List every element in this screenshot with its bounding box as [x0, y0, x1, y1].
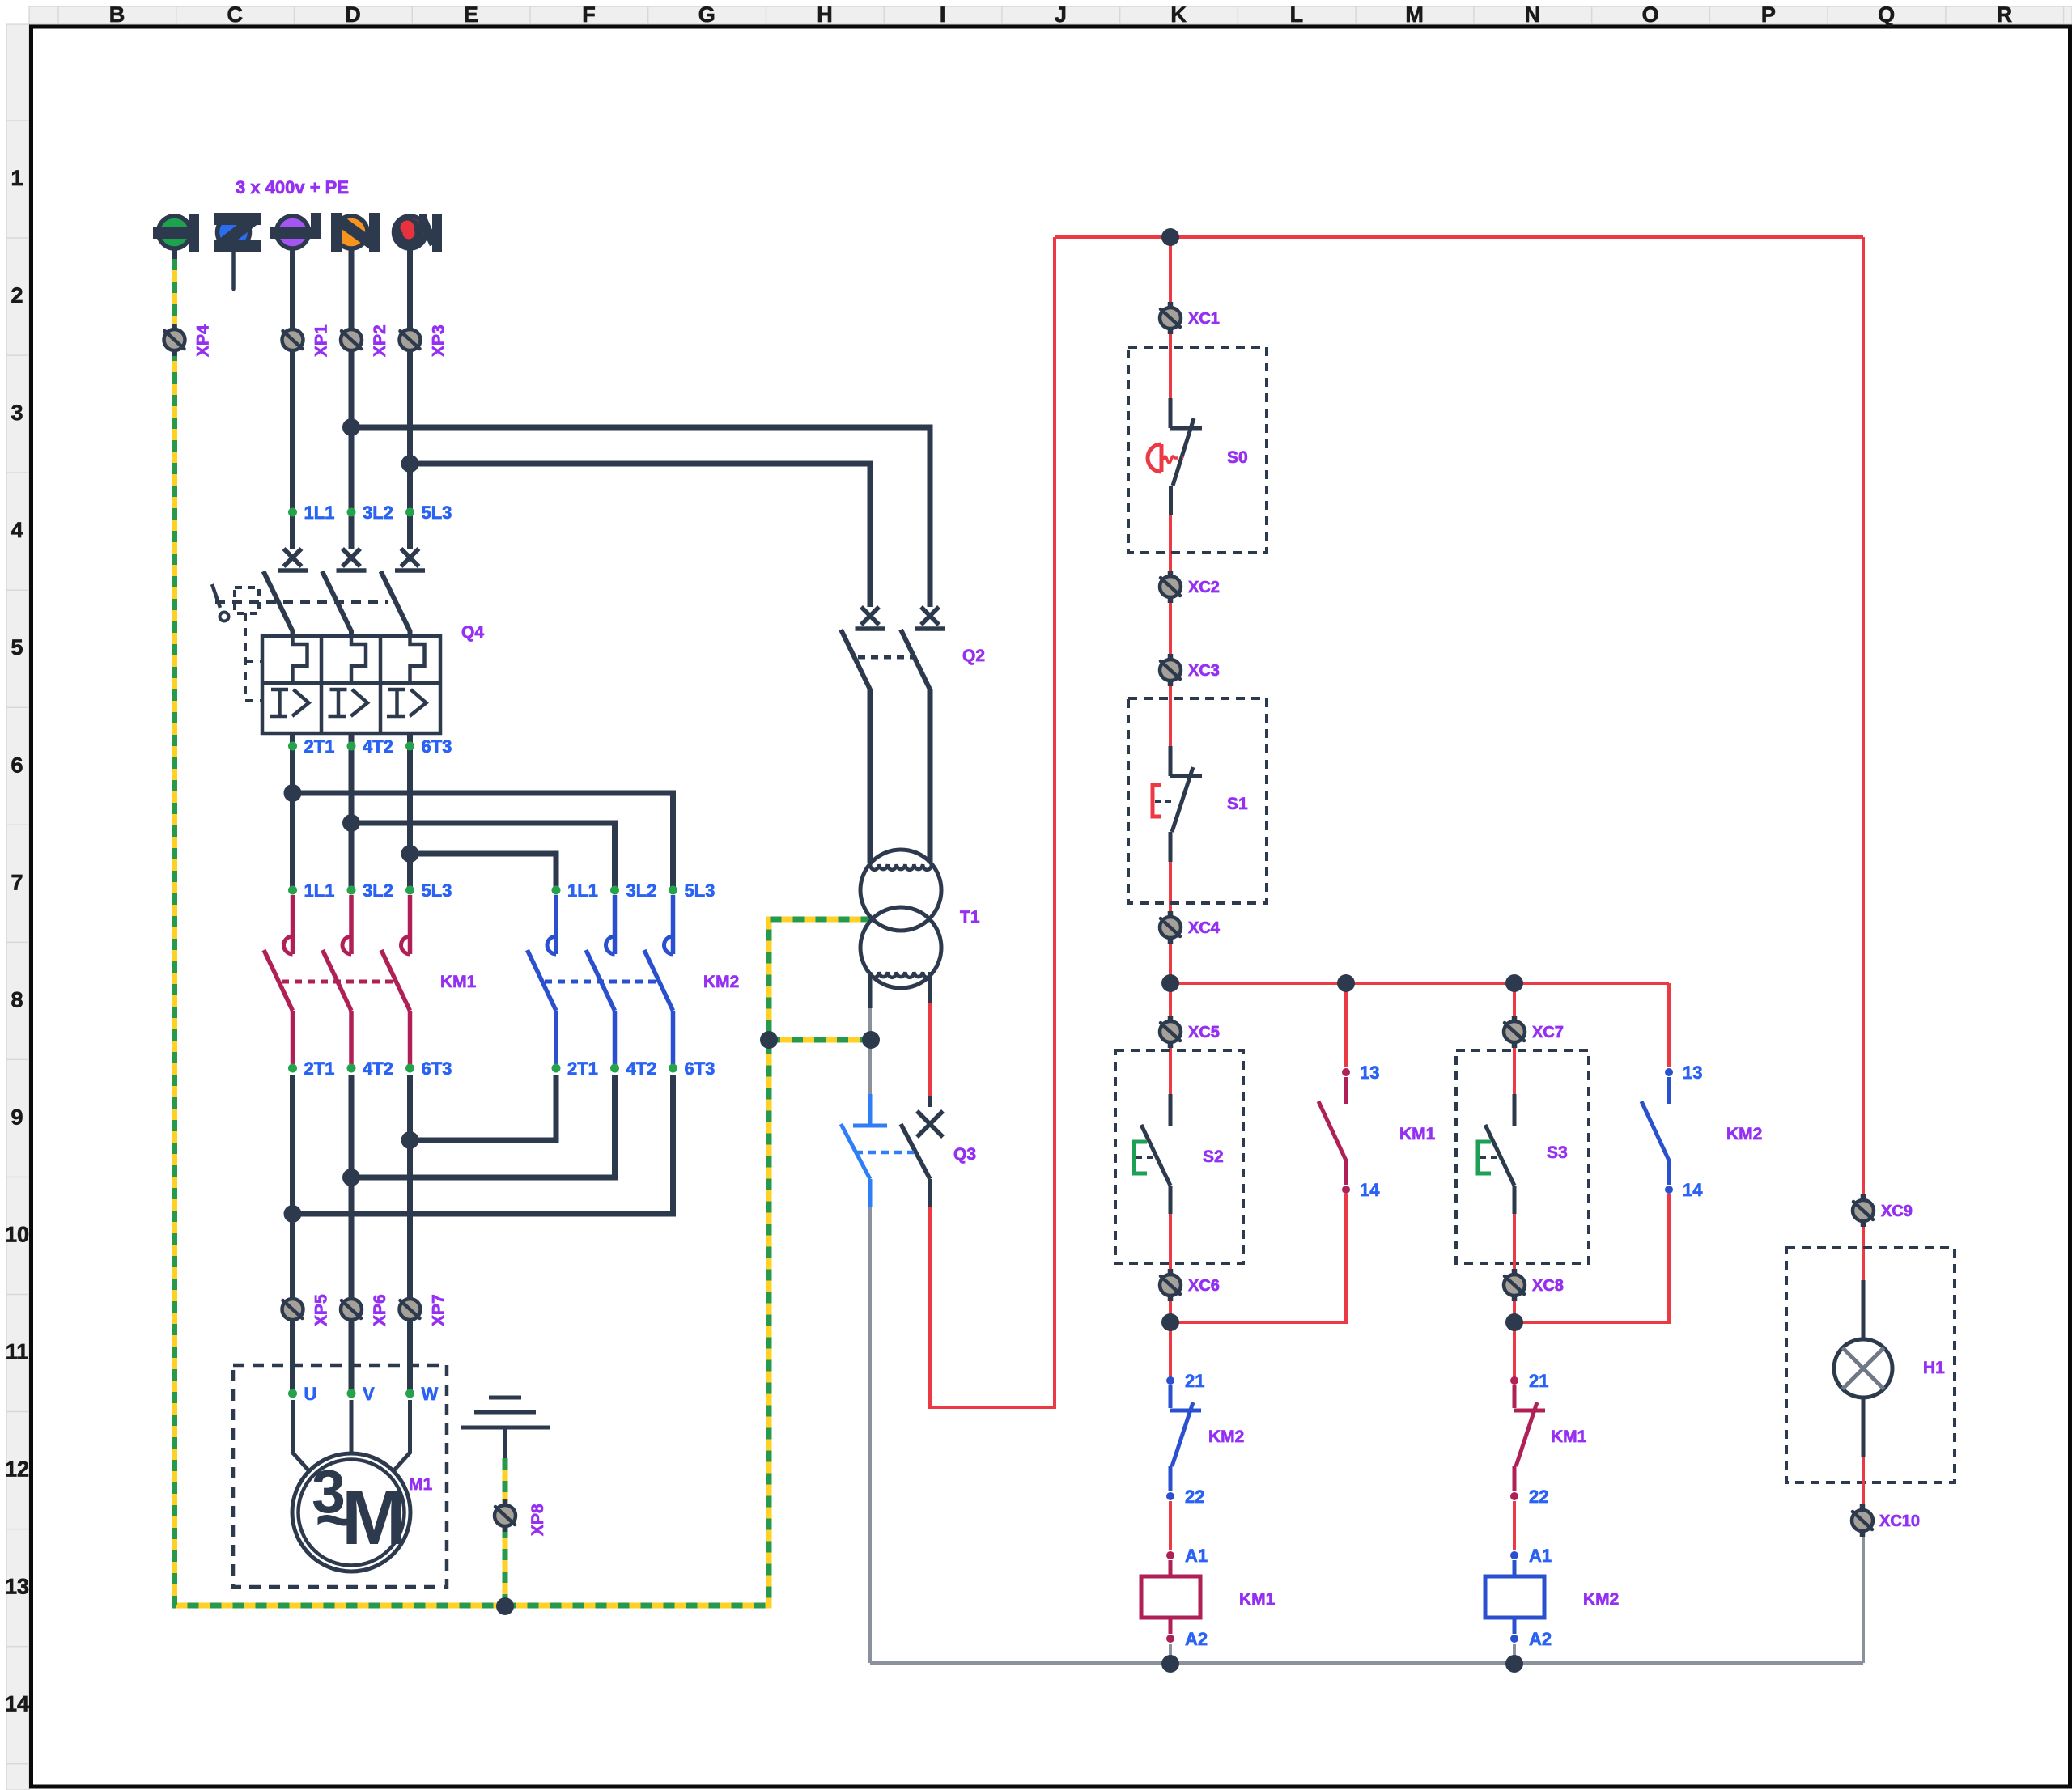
svg-text:XP8: XP8: [529, 1504, 547, 1536]
svg-text:XC6: XC6: [1188, 1277, 1220, 1295]
svg-text:N: N: [1525, 2, 1541, 27]
svg-text:14: 14: [1683, 1180, 1703, 1200]
svg-text:M1: M1: [409, 1475, 432, 1494]
svg-text:U: U: [304, 1384, 317, 1404]
svg-text:11: 11: [6, 1340, 29, 1364]
svg-text:1: 1: [11, 166, 23, 190]
svg-text:5L3: 5L3: [685, 880, 715, 901]
svg-text:6T3: 6T3: [422, 736, 452, 757]
svg-text:H1: H1: [1923, 1359, 1945, 1377]
svg-text:2: 2: [11, 283, 23, 308]
svg-text:P: P: [1761, 2, 1776, 27]
svg-text:KM1: KM1: [1239, 1590, 1276, 1609]
svg-text:Q: Q: [1878, 2, 1895, 27]
svg-text:1L1: 1L1: [304, 503, 335, 523]
svg-text:3L2: 3L2: [363, 880, 393, 901]
svg-text:O: O: [1642, 2, 1659, 27]
svg-text:E: E: [464, 2, 478, 27]
svg-text:S2: S2: [1203, 1147, 1224, 1166]
svg-text:H: H: [817, 2, 833, 27]
svg-text:R: R: [1997, 2, 2013, 27]
svg-text:KM1: KM1: [1399, 1125, 1436, 1143]
svg-text:G: G: [698, 2, 715, 27]
svg-text:14: 14: [1360, 1180, 1380, 1200]
svg-text:XP5: XP5: [312, 1294, 331, 1326]
svg-text:13: 13: [1360, 1063, 1379, 1083]
svg-text:Q3: Q3: [953, 1145, 976, 1164]
svg-text:A2: A2: [1185, 1629, 1208, 1649]
svg-text:6T3: 6T3: [685, 1058, 715, 1079]
svg-text:V: V: [363, 1384, 375, 1404]
svg-text:XP3: XP3: [430, 324, 448, 357]
svg-text:3 x 400v + PE: 3 x 400v + PE: [236, 177, 349, 197]
svg-text:2T1: 2T1: [304, 736, 335, 757]
svg-text:4T2: 4T2: [363, 736, 393, 757]
svg-text:XC5: XC5: [1188, 1024, 1220, 1041]
svg-text:XC10: XC10: [1879, 1512, 1920, 1530]
svg-text:M: M: [1405, 2, 1424, 27]
svg-text:C: C: [227, 2, 243, 27]
svg-text:Q4: Q4: [461, 623, 484, 642]
svg-text:3: 3: [11, 401, 23, 425]
svg-text:12: 12: [5, 1457, 29, 1482]
svg-text:Q2: Q2: [962, 647, 985, 665]
svg-text:XP7: XP7: [430, 1294, 448, 1326]
svg-text:KM2: KM2: [703, 973, 739, 991]
svg-text:4T2: 4T2: [626, 1058, 657, 1079]
svg-text:13: 13: [5, 1575, 29, 1599]
svg-text:7: 7: [11, 870, 23, 894]
svg-text:F: F: [582, 2, 596, 27]
svg-text:22: 22: [1529, 1487, 1548, 1507]
svg-text:XP2: XP2: [371, 324, 389, 357]
svg-text:T1: T1: [960, 908, 980, 927]
svg-text:XP6: XP6: [371, 1294, 389, 1326]
svg-text:I: I: [940, 2, 946, 27]
svg-text:KM1: KM1: [1551, 1427, 1587, 1446]
svg-text:KM1: KM1: [440, 973, 477, 991]
svg-text:~: ~: [315, 1482, 355, 1559]
svg-text:L: L: [1290, 2, 1304, 27]
svg-text:6: 6: [11, 753, 23, 777]
svg-text:A1: A1: [1185, 1546, 1208, 1566]
svg-text:S1: S1: [1227, 795, 1248, 813]
svg-text:10: 10: [5, 1222, 29, 1246]
svg-text:5: 5: [11, 635, 23, 660]
svg-text:14: 14: [5, 1692, 29, 1716]
svg-text:XC2: XC2: [1188, 579, 1220, 596]
svg-text:XC9: XC9: [1881, 1203, 1913, 1220]
svg-text:2T1: 2T1: [304, 1058, 335, 1079]
svg-text:4: 4: [11, 518, 23, 542]
svg-text:3L2: 3L2: [626, 880, 657, 901]
svg-text:6T3: 6T3: [422, 1058, 452, 1079]
svg-text:5L3: 5L3: [422, 503, 452, 523]
svg-text:S0: S0: [1227, 448, 1248, 467]
svg-text:XC3: XC3: [1188, 662, 1220, 680]
svg-text:1L1: 1L1: [304, 880, 335, 901]
svg-text:XP4: XP4: [194, 324, 213, 357]
svg-text:XP1: XP1: [312, 324, 331, 357]
svg-text:KM2: KM2: [1726, 1125, 1762, 1143]
svg-text:J: J: [1055, 2, 1067, 27]
svg-text:5L3: 5L3: [422, 880, 452, 901]
svg-text:KM2: KM2: [1208, 1427, 1244, 1446]
svg-text:8: 8: [11, 987, 23, 1012]
svg-text:S3: S3: [1547, 1143, 1568, 1162]
svg-text:XC7: XC7: [1532, 1024, 1564, 1041]
svg-text:9: 9: [11, 1105, 23, 1129]
svg-text:A2: A2: [1529, 1629, 1552, 1649]
svg-text:2T1: 2T1: [567, 1058, 598, 1079]
svg-text:XC8: XC8: [1532, 1277, 1564, 1295]
svg-text:22: 22: [1185, 1487, 1204, 1507]
svg-text:13: 13: [1683, 1063, 1702, 1083]
svg-text:A1: A1: [1529, 1546, 1552, 1566]
svg-text:1L1: 1L1: [567, 880, 598, 901]
svg-text:XC1: XC1: [1188, 310, 1220, 328]
svg-text:W: W: [422, 1384, 439, 1404]
svg-text:B: B: [109, 2, 125, 27]
svg-text:K: K: [1170, 2, 1187, 27]
svg-text:4T2: 4T2: [363, 1058, 393, 1079]
svg-text:D: D: [345, 2, 361, 27]
svg-text:KM2: KM2: [1583, 1590, 1619, 1609]
svg-text:21: 21: [1529, 1371, 1548, 1391]
svg-text:3L2: 3L2: [363, 503, 393, 523]
svg-text:21: 21: [1185, 1371, 1204, 1391]
svg-text:XC4: XC4: [1188, 919, 1221, 937]
